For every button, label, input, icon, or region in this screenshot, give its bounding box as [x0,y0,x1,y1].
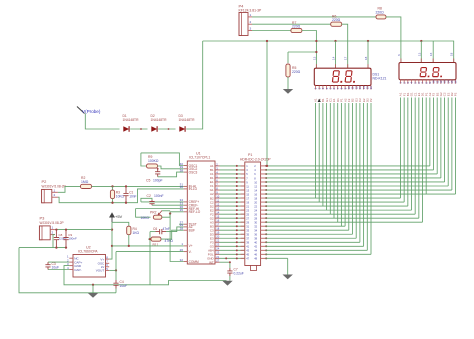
junction row 18 [236,233,238,235]
wire U1 to P1 row 7 [220,189,245,191]
wire D1 to D2 [130,128,147,130]
wire rail to P1 row1 [266,41,268,166]
svg-text:2: 2 [54,193,56,197]
svg-text:16: 16 [454,80,458,84]
junction row 24 [236,257,238,259]
svg-text:25: 25 [216,251,219,255]
connector P1 HDR-IDC-2.0-2X20P [240,153,271,270]
svg-text:BUF: BUF [189,229,195,233]
wire DS2 pin 8 [425,98,427,195]
junction row 5 [236,181,238,183]
wire to R5 [287,52,289,63]
junction P1 right row 22 [265,249,267,251]
svg-text:220Ω: 220Ω [376,11,385,15]
wire C5 to OSC3 [158,172,184,177]
wire rail to DS1 anode [335,41,337,68]
junction [315,51,317,53]
svg-text:100pF: 100pF [153,179,163,183]
wire U1 to P1 row 16 [220,225,245,227]
wire P1 row 7 to display [266,189,452,191]
wire U1 to P1 row 13 [220,213,245,215]
ground right of P1 [283,275,293,280]
resistor R6 [331,15,342,27]
junction [65,246,67,248]
wire P1 row 1 to display [266,165,430,167]
resistor R4 [127,226,140,235]
junction [225,257,227,259]
junction P1 right row 12 [265,209,267,211]
junction [125,202,127,204]
wire CREF+ [141,201,184,203]
wire DS2 pin 2 [403,98,405,203]
svg-text:13: 13 [417,52,421,56]
junction P1 right row 13 [265,213,267,215]
svg-text:220Ω: 220Ω [332,18,341,22]
svg-text:V(Probe): V(Probe) [82,109,101,114]
junction [65,228,67,230]
svg-text:V-: V- [189,250,192,254]
capacitor C3 [45,262,59,270]
capacitor C2 [147,194,164,205]
svg-text:14: 14 [216,211,219,215]
wire U1 to P1 row 23 [220,253,245,255]
junction row 13 [236,213,238,215]
svg-text:13: 13 [216,207,219,211]
junction row 21 [236,245,238,247]
wire C4 to outer loop [115,289,117,293]
wire DS2 pin 13 [444,98,446,182]
svg-text:REF-LO: REF-LO [189,210,201,214]
wire V+ rail [112,245,184,247]
junction P1 right row 20 [265,241,267,243]
junction P1 right row 5 [265,181,267,183]
junction P1 right row 15 [265,221,267,223]
U1 left pins [180,162,201,264]
svg-text:1: 1 [54,188,56,192]
wire P4 pin1 to R8 [252,16,376,18]
junction [149,238,151,240]
svg-text:18: 18 [364,56,368,60]
svg-text:P3: P3 [40,216,46,221]
wire R5 to ground [287,77,289,89]
wire P1 row 10 to display [266,201,405,203]
wire DS1 pin 2 [318,103,320,202]
wire P1 row 15 to display [266,221,423,223]
wire DS2 pin 1 [400,98,402,199]
wire P1 row 16 to display [266,225,346,227]
wire P1 row 14 to display [266,217,419,219]
svg-text:10: 10 [216,194,219,198]
svg-text:220Ω: 220Ω [292,25,301,29]
junction row 14 [236,217,238,219]
U1 right pins [207,162,220,264]
svg-text:19: 19 [216,231,219,235]
junction P1 right row 18 [265,233,267,235]
wire DS1 pin 4 [326,103,328,210]
svg-text:CAP-: CAP- [74,268,81,272]
svg-text:P2: P2 [369,98,373,102]
wire DS1 pin 6 [333,103,335,218]
connector P2 [42,179,66,203]
junction [168,128,170,130]
capacitor C7 [227,268,243,277]
U2 pins [67,255,109,273]
junction P1 right row 3 [265,173,267,175]
wire DS1 pin 1 [315,103,317,198]
svg-text:10uF: 10uF [120,284,128,288]
arrow mark [318,99,321,102]
wire DS2 pin 9 [429,98,431,166]
wire U1 to P1 row 9 [220,197,245,199]
junction row 7 [236,189,238,191]
capacitor C5 [146,169,163,183]
junction [140,128,142,130]
wire to C2 [141,198,152,202]
junction P1 right row 19 [265,237,267,239]
junction P1 right row 17 [265,229,267,231]
capacitor C1 [123,186,136,202]
display DS2 pins [399,80,458,96]
wire U1 to P1 row 1 [220,165,245,167]
svg-text:28: 28 [180,227,184,231]
svg-text:2: 2 [52,231,54,235]
junction P1 right row 2 [265,169,267,171]
wire DS1 pin 7 [337,103,339,222]
wire P1 row 3 to display [266,173,438,175]
display DS2 [399,63,456,80]
svg-text:INT: INT [209,260,214,264]
junction [169,212,171,214]
junction [420,40,422,42]
diode D1 [123,114,140,132]
svg-text:10KΩ: 10KΩ [141,216,150,220]
diode D3 [179,114,196,132]
wire P1 row 21 to display [266,245,364,247]
wire VOUT to V- [115,252,117,280]
wire U1 to P1 row 3 [220,173,245,175]
junction row 6 [236,185,238,187]
svg-text:16: 16 [429,52,433,56]
svg-text:1N4148TR: 1N4148TR [179,118,196,122]
wire row 24 to ground [287,258,289,274]
junction row 12 [236,209,238,211]
junction row 22 [236,249,238,251]
svg-text:C5: C5 [146,179,150,183]
ground below U2 [88,285,98,298]
svg-text:23: 23 [216,243,219,247]
svg-text:VOUT: VOUT [96,269,105,273]
svg-text:21: 21 [216,255,219,259]
svg-text:ICL7107CPL1: ICL7107CPL1 [189,156,210,160]
display top pin stubs [316,59,453,69]
wire P1 row 12 to display [266,209,412,211]
wire U1 to P1 row 20 [220,241,245,243]
svg-text:26: 26 [180,248,184,252]
wire P1 row 11 to display [266,205,408,207]
svg-text:0.22uF: 0.22uF [234,272,244,276]
resistor R3 [110,186,124,202]
connector P4 [239,4,263,36]
resistor R11 [151,237,173,247]
wire U1 to P1 row 8 [220,193,245,195]
wire DS2 pin 16 [455,98,457,195]
wire DS1 pin 9 [344,103,346,226]
capacitor C8 [54,230,67,248]
svg-text:KF124.3.81-3P: KF124.3.81-3P [239,9,263,13]
junction row 15 [236,221,238,223]
wire CREF- [152,204,184,206]
wire U1 to P1 row 10 [220,201,245,203]
junction P1 right row 1 [265,165,267,167]
junction [111,228,113,230]
wire probe to D1 [85,114,119,130]
wire U2 GND to ground loop [64,266,150,285]
svg-text:100nF: 100nF [68,237,77,241]
wire R4 to V+ rail [128,235,130,246]
wire U1 to P1 row 14 [220,217,245,219]
svg-text:ND-K121: ND-K121 [373,77,387,81]
svg-text:16: 16 [369,86,373,90]
wire OSC1 loop [141,153,184,166]
junction row 17 [236,229,238,231]
svg-text:C2: C2 [147,194,151,198]
svg-text:COMM: COMM [189,260,199,264]
wire P1 row 17 to display [266,229,349,231]
junction row 11 [236,205,238,207]
junction [55,228,57,230]
svg-text:P2: P2 [42,179,48,184]
wire DS2 pin 3 [407,98,409,207]
wire C7 to ground [229,276,231,281]
junction P1 right row 11 [265,205,267,207]
wire DS1 pin 3 [322,103,324,206]
junction [111,245,113,247]
svg-text:13: 13 [312,56,316,60]
wire DS2 pin 4 [411,98,413,211]
wire P1 row 13 to display [266,213,416,215]
svg-text:PR2: PR2 [150,211,157,215]
resistor R5 [286,64,301,77]
svg-text:32: 32 [180,258,184,262]
wire top rail [203,41,454,63]
wire DS2 pin 14 [447,98,449,187]
wire R11 left [148,238,150,240]
junction [55,246,57,248]
wire P3 pin2 to gnd rail [53,235,55,248]
svg-text:+5V: +5V [115,214,123,219]
junction row 8 [236,193,238,195]
wire P1 row 9 to display [266,197,401,199]
wire D3 to rail [186,41,203,129]
wire rail to DS2 anode [420,41,422,63]
wire DS1 pin 12 [355,103,357,238]
junction P1 right row 4 [265,177,267,179]
wire VOUT [109,269,116,271]
wire wiper [162,210,170,212]
wire DS1 pin 5 [329,103,331,214]
svg-text:38: 38 [180,168,184,172]
svg-text:IN-LO: IN-LO [189,187,198,191]
wire +5V down to U2 V+ [109,222,112,259]
wire rail to DS1 anode 2 [367,41,369,68]
svg-text:2: 2 [250,20,252,24]
junction [266,40,268,42]
wire U1 to P1 row 24 [220,257,245,259]
svg-text:WJ301V-5.08-2P: WJ301V-5.08-2P [40,221,64,225]
junction [229,261,231,263]
junction row 23 [236,253,238,255]
wire P1 row 4 to display [266,177,441,179]
junction [266,165,268,167]
wire R2 to IN-HI [92,185,184,187]
wire P4 pin2 to R6 [252,23,331,25]
wire to R9 [141,153,146,166]
wire AZ net down [149,232,151,285]
wire rail to DS2 anode 2 [432,41,434,63]
wire CAP- to C3 [48,269,69,271]
resistor R7 [291,21,302,33]
capacitor C6 [153,227,170,234]
wire V- to U2 VOUT [116,251,184,253]
svg-text:220Ω: 220Ω [292,70,301,74]
svg-text:15: 15 [216,215,219,219]
resistor R9 [147,155,159,168]
resistor R8 [376,7,387,19]
power +5V [110,213,123,222]
junction [334,40,336,42]
svg-text:3: 3 [250,27,252,31]
wire R9 to OSC2 [158,166,184,169]
wire U1 to P1 row 15 [220,221,245,223]
wire R7 to DS1 [302,31,317,69]
wire P1 row 19 to display [266,237,357,239]
junction [111,185,113,187]
svg-text:14: 14 [332,56,336,60]
junction [92,284,94,286]
svg-text:1: 1 [250,13,252,17]
svg-text:30: 30 [180,185,184,189]
wire P1 row 8 to display [266,193,456,195]
wire DS1 pin 10 [348,103,350,230]
trimpot PR2 [141,211,163,221]
P1 pin numbers [246,164,257,260]
junction row 4 [236,177,238,179]
junction P1 right row 21 [265,245,267,247]
wire [112,199,114,203]
wire R6 to DS1 [342,24,348,68]
wire CAP+ to C3 [48,261,69,263]
wire P1 row 22 to display [266,249,368,251]
wire DS2 pin 5 [414,98,416,215]
svg-text:OSC3: OSC3 [189,170,198,174]
wire U1 to P1 row 18 [220,233,245,235]
junction [111,202,113,204]
junction row 2 [236,169,238,171]
display DS1 pins [314,86,374,103]
svg-text:27: 27 [216,259,219,263]
junction P1 right row 6 [265,185,267,187]
svg-text:22: 22 [216,239,219,243]
junction P1 right row 10 [265,201,267,203]
wire DS2 pin 12 [440,98,442,178]
capacitor C9 [63,230,77,248]
wire DS2 pin 6 [418,98,420,219]
svg-text:10uF: 10uF [52,266,60,270]
junction row 10 [236,201,238,203]
wire P1 row 5 to display [266,181,445,183]
junction row 20 [236,241,238,243]
wire DS1 pin 14 [363,103,365,246]
wire DS2 pin 15 [451,98,453,191]
svg-text:18: 18 [216,227,219,231]
svg-text:12: 12 [216,203,219,207]
wire +5V to R4 [112,222,129,226]
wire REF-HI [136,208,184,210]
svg-text:1MΩ: 1MΩ [81,180,89,184]
wire P1 row 6 to display [266,185,449,187]
junction P1 right row 8 [265,193,267,195]
svg-text:11: 11 [216,198,219,202]
wire TEST stub [179,223,184,225]
wire P2 pin2 to IN-LO [58,189,184,203]
wire outer ground loop [19,248,116,293]
wire DS2 pin 7 [422,98,424,223]
wire DS1 pin 11 [352,103,354,234]
display DS1 [314,68,386,85]
svg-text:35: 35 [180,208,184,212]
op-amp U1 ICL7107 [187,152,215,265]
wire U1 to P1 row 11 [220,205,245,207]
junction [367,40,369,42]
svg-text:V+: V+ [189,244,193,248]
wire [112,186,114,190]
op-amp U2 ICL7660 [73,246,106,278]
svg-text:20: 20 [216,235,219,239]
wire PR2 to REF-LO [162,212,184,217]
junction [157,168,159,170]
svg-text:17: 17 [216,223,219,227]
junction [315,40,317,42]
display top pin numbers [312,52,453,60]
svg-text:R11: R11 [153,243,159,247]
wire DS1 pin 13 [359,103,361,242]
svg-text:P2: P2 [454,92,458,96]
svg-text:100KΩ: 100KΩ [148,159,159,163]
svg-text:P1: P1 [248,153,252,157]
wire P4 pin3 to R7 [252,30,291,32]
wire U1 to P1 row 2 [220,169,245,171]
wire U1 to P1 row 17 [220,229,245,231]
svg-text:1: 1 [52,226,54,230]
ground below C7 [222,281,232,286]
svg-text:47nF: 47nF [163,227,171,231]
svg-text:10nF: 10nF [129,195,136,199]
wire U1 to P1 row 12 [220,209,245,211]
wire INT [220,261,230,263]
wire C6 to AZ [166,227,184,232]
svg-text:100nF: 100nF [154,194,164,198]
wire P3 pin1 +5V [55,229,112,231]
junction row 9 [236,197,238,199]
wire DS1 pin 15 [366,103,368,250]
wire P2 pin1 to R2 [58,186,81,192]
wire P1 row 2 to display [266,169,434,171]
wire to C6 [150,231,156,233]
wire R5 branch [288,51,316,53]
svg-text:C6: C6 [153,227,157,231]
wire U1 to P1 row 22 [220,249,245,251]
junction P1 right row 7 [265,189,267,191]
